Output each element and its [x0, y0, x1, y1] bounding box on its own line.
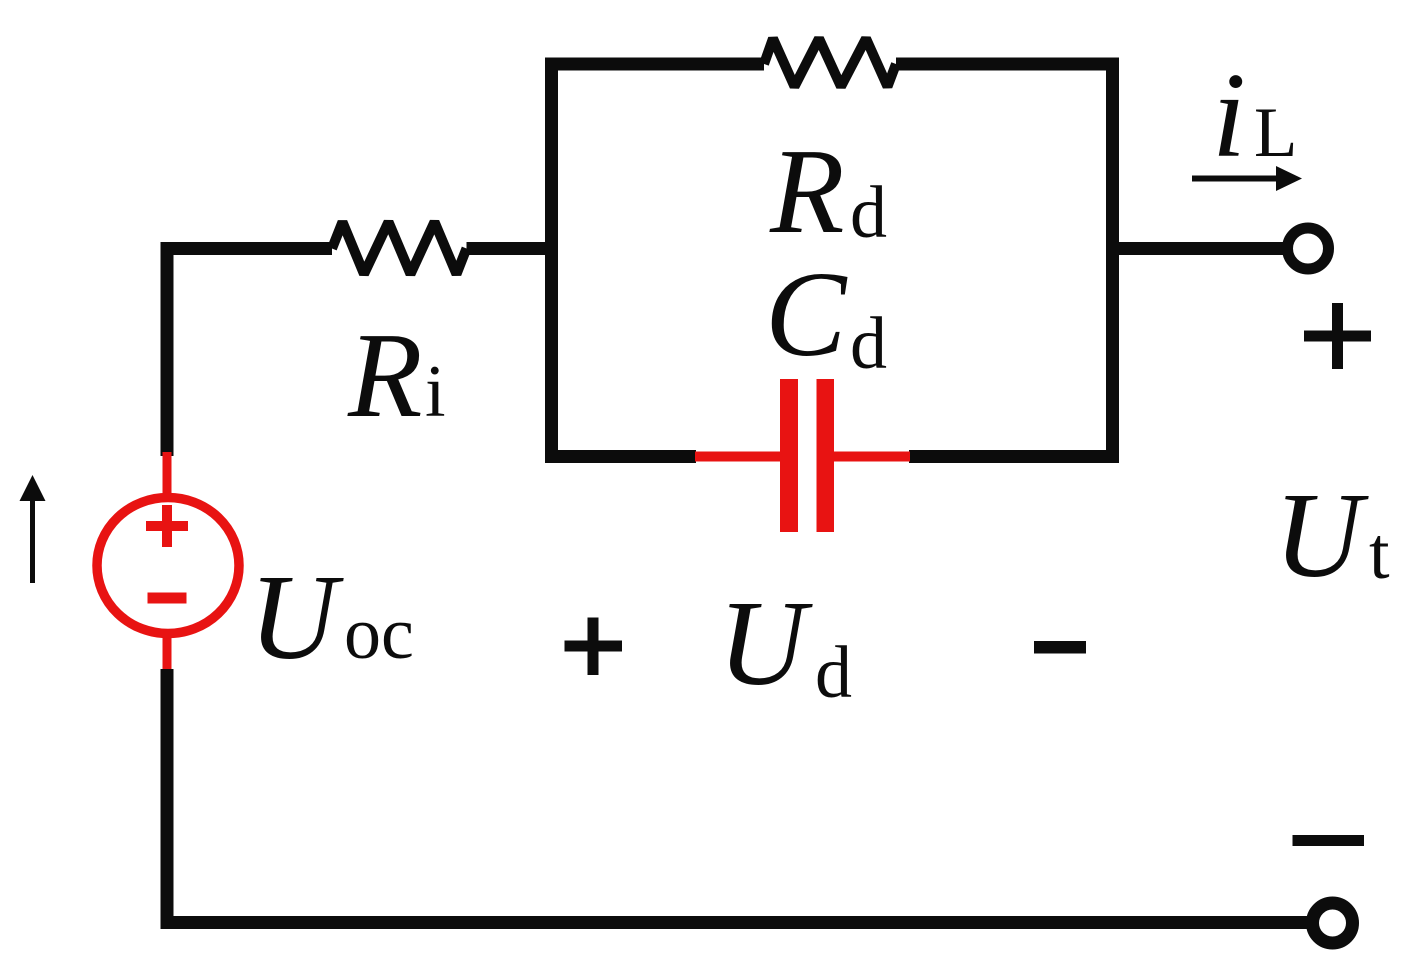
voltage source minus sign	[148, 593, 187, 604]
svg-text:t: t	[1369, 513, 1390, 595]
label plus for Ud	[565, 618, 623, 676]
label minus for Ud	[1034, 641, 1086, 654]
svg-text:d: d	[850, 172, 887, 254]
wire: red stub above source	[163, 452, 172, 500]
wire: box left edge + top-left + bottom-left segments	[552, 64, 765, 457]
terminal: bottom output node	[1313, 903, 1353, 943]
svg-text:oc: oc	[344, 593, 414, 675]
svg-text:R: R	[347, 308, 423, 443]
wire: left branch from source up and right to Ri	[167, 249, 332, 457]
label minus at bottom terminal	[1293, 835, 1365, 846]
capacitor C1 (Cd) right plate	[817, 379, 835, 532]
wire: capacitor left red lead	[695, 452, 780, 462]
wire: right output to top terminal	[1112, 242, 1290, 255]
arrow: current iL direction	[1192, 166, 1302, 191]
wire: box right edge + top-right + bottom-right segments	[896, 64, 1113, 457]
label plus at output terminal	[1304, 303, 1371, 369]
label Ut	[1274, 468, 1390, 603]
voltage source plus sign	[146, 505, 188, 547]
resistor R1 (Ri) zigzag	[332, 222, 467, 274]
svg-text:U: U	[249, 550, 344, 685]
label Uoc	[249, 550, 414, 685]
svg-text:R: R	[769, 124, 845, 259]
label Ud	[718, 576, 852, 714]
wire: Ri right lead to box	[467, 242, 554, 255]
arrow: source current direction (left)	[20, 475, 46, 583]
label iL	[1212, 48, 1297, 183]
svg-text:L: L	[1254, 94, 1297, 172]
label Rd	[769, 124, 887, 259]
svg-text:i: i	[1212, 48, 1246, 183]
svg-text:U: U	[718, 576, 813, 711]
svg-text:U: U	[1274, 468, 1369, 603]
wire: bottom return from source to right terminal	[167, 669, 1310, 923]
svg-text:C: C	[765, 247, 848, 382]
capacitor C1 (Cd) left plate	[780, 379, 798, 532]
terminal: top output node	[1288, 228, 1329, 269]
wire: red stub below source	[163, 632, 172, 671]
resistor R2 (Rd) zigzag	[764, 39, 896, 87]
label Ri	[347, 308, 446, 443]
svg-text:i: i	[425, 351, 446, 433]
svg-text:d: d	[850, 303, 887, 385]
svg-text:d: d	[815, 632, 852, 714]
voltage source U1 (Uoc) circle	[97, 498, 239, 634]
label Cd	[765, 247, 887, 385]
wire: capacitor right red lead	[834, 452, 910, 462]
